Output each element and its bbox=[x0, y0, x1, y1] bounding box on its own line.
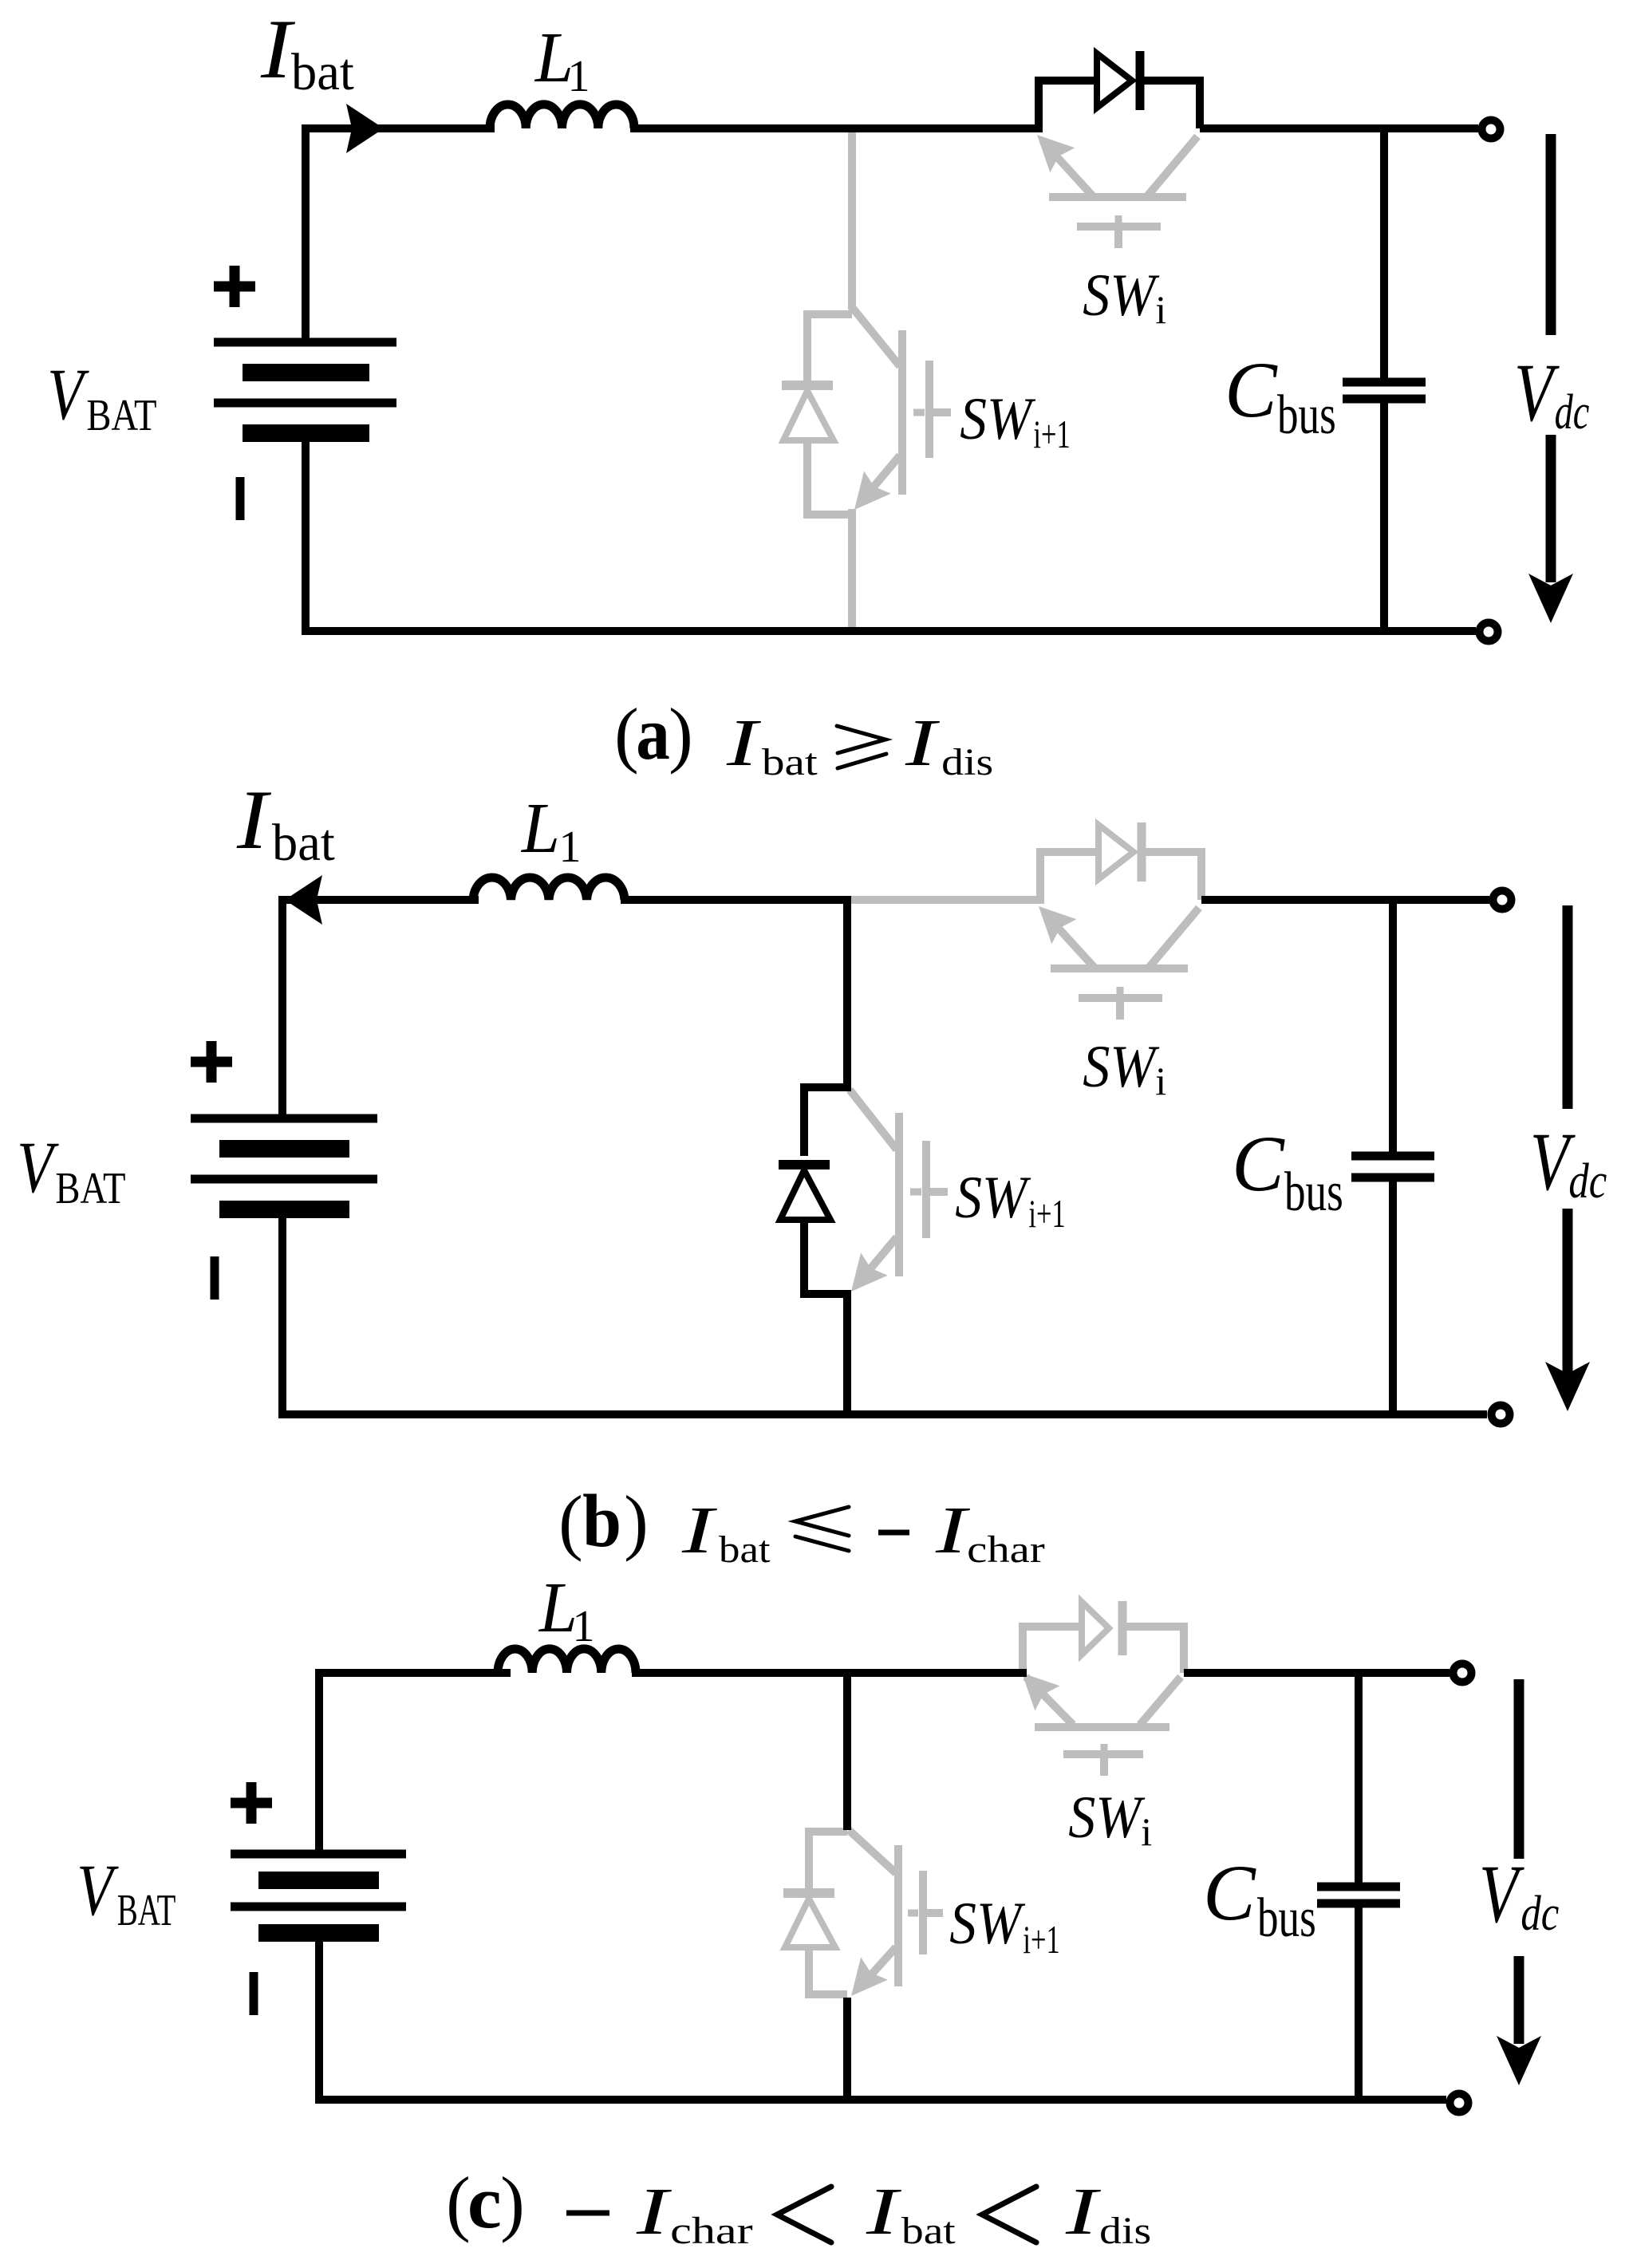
wire: battery negative lead and bottom rail (c) bbox=[319, 1928, 1446, 2100]
free-wheel diode of SWi+1 conducting (b) bbox=[779, 1160, 830, 1169]
svg-text:C: C bbox=[1232, 1119, 1285, 1208]
svg-text:1: 1 bbox=[559, 822, 582, 872]
svg-text:bus: bus bbox=[1284, 1162, 1343, 1223]
switch node line (black, conducting) (b) bbox=[804, 900, 847, 1156]
svg-text:I: I bbox=[236, 773, 272, 866]
capacitor Cbus (b) bbox=[1389, 900, 1397, 1152]
svg-text:c: c bbox=[467, 2161, 502, 2244]
wire: SWi+1 emitter to bottom rail (gray) (a) bbox=[848, 509, 856, 631]
svg-text:SW: SW bbox=[955, 1165, 1031, 1231]
svg-text:I: I bbox=[260, 2, 296, 96]
minus sign (b) bbox=[211, 1256, 219, 1300]
svg-text:i+1: i+1 bbox=[1023, 1917, 1059, 1962]
diode of SWi (gray) (b) bbox=[1098, 825, 1134, 879]
IGBT SWi+1 (gray, off) (a): collector diagonal bbox=[852, 307, 900, 366]
IGBT SWi collector diagonal (b) bbox=[1149, 908, 1199, 968]
svg-text:1: 1 bbox=[573, 1602, 595, 1651]
wire: top rail from SWi to output terminal (b) bbox=[1201, 896, 1489, 904]
symbol less-equal slanted (b) bbox=[795, 1507, 849, 1551]
svg-text:(: ( bbox=[558, 1481, 583, 1562]
svg-text:(: ( bbox=[614, 693, 639, 775]
svg-text:bat: bat bbox=[272, 814, 335, 872]
IGBT SWi+1 gate bar (a) bbox=[925, 361, 933, 458]
capacitor Cbus (a) bbox=[1380, 128, 1388, 378]
IGBT SWi gate bar (c) bbox=[1063, 1750, 1143, 1758]
SWi bypass loop (gray, off) (b) bbox=[1040, 852, 1098, 900]
IGBT SWi collector diagonal (c) bbox=[1140, 1677, 1181, 1725]
inductor L1 (b) bbox=[473, 878, 625, 900]
svg-text:L: L bbox=[520, 789, 560, 868]
wire: battery negative lead and bottom rail (b) bbox=[282, 1205, 1487, 1414]
capacitor Cbus (c) bbox=[1355, 1673, 1363, 1883]
IGBT SWi+1 (gray) (c): collector diagonal bbox=[849, 1830, 896, 1873]
IGBT SWi+1 bar (b) bbox=[895, 1113, 903, 1276]
svg-text:b: b bbox=[582, 1480, 621, 1563]
svg-text:C: C bbox=[1225, 345, 1278, 434]
svg-text:BAT: BAT bbox=[117, 1886, 176, 1935]
wire: battery positive lead and top-left corner (c) bbox=[319, 1673, 511, 1858]
Vdc arrow (c) bbox=[1514, 1679, 1524, 1859]
output terminal top (b) bbox=[1493, 891, 1512, 909]
svg-text:bat: bat bbox=[291, 43, 354, 101]
svg-text:I: I bbox=[636, 2175, 672, 2249]
svg-text:V: V bbox=[1479, 1848, 1524, 1940]
battery VBAT (c) bbox=[231, 1850, 406, 1859]
plus sign (b) bbox=[191, 1057, 232, 1067]
svg-text:I: I bbox=[1065, 2175, 1102, 2249]
free-wheel diode branch of SWi+1 (gray) (c) bbox=[809, 1832, 847, 1888]
svg-text:V: V bbox=[77, 1849, 119, 1931]
Vdc arrow (b) bbox=[1563, 905, 1573, 1109]
svg-text:): ) bbox=[624, 1481, 649, 1562]
current arrow Ibat pointing left (b) bbox=[285, 875, 322, 925]
IGBT SWi (gray) (b): emitter diagonal with arrow bbox=[1044, 913, 1095, 968]
Vdc arrow (a) bbox=[1546, 134, 1556, 335]
IGBT SWi+1 emitter diagonal with arrow (b) bbox=[860, 1237, 897, 1281]
svg-text:i+1: i+1 bbox=[1028, 1191, 1065, 1236]
svg-text:dc: dc bbox=[1555, 385, 1590, 440]
IGBT SWi bar (a) bbox=[1049, 193, 1186, 201]
svg-text:I: I bbox=[866, 2175, 902, 2249]
IGBT SWi gate tick (a) bbox=[1115, 215, 1122, 223]
IGBT SWi (gray, off) (a): emitter diagonal with arrow bbox=[1043, 141, 1093, 196]
battery VBAT (a) bbox=[214, 338, 396, 347]
IGBT SWi+1 (gray) (b): collector diagonal bbox=[850, 1090, 897, 1150]
minus sign (c) bbox=[250, 1972, 258, 2015]
output terminal bottom (a) bbox=[1480, 623, 1498, 641]
IGBT SWi+1 bar (a) bbox=[898, 330, 906, 495]
switch node line (black) (c) bbox=[843, 1673, 851, 1830]
minus sign in caption (c) bbox=[566, 2211, 609, 2216]
IGBT SWi gate bar (b) bbox=[1079, 994, 1162, 1002]
diode of SWi (gray) (c) bbox=[1082, 1602, 1109, 1655]
IGBT SWi bar (b) bbox=[1051, 964, 1188, 972]
output terminal bottom (b) bbox=[1492, 1406, 1510, 1424]
svg-text:C: C bbox=[1203, 1848, 1256, 1937]
symbol less-than (c) bbox=[777, 2187, 831, 2242]
IGBT SWi+1 emitter diagonal with arrow (a) bbox=[863, 456, 900, 499]
svg-text:SW: SW bbox=[949, 1891, 1026, 1957]
svg-text:i: i bbox=[1155, 1059, 1166, 1103]
wire: SWi+1 to bottom rail (black) (c) bbox=[843, 1998, 851, 2100]
svg-text:V: V bbox=[1514, 347, 1560, 439]
svg-text:I: I bbox=[681, 1493, 718, 1568]
svg-text:I: I bbox=[905, 706, 941, 780]
IGBT SWi bar (c) bbox=[1035, 1723, 1169, 1731]
svg-text:SW: SW bbox=[1083, 262, 1160, 329]
gray top rail from node to SWi (b) bbox=[847, 896, 1044, 904]
symbol greater-equal slanted (a) bbox=[837, 726, 886, 768]
IGBT SWi+1 bar (c) bbox=[894, 1845, 902, 1986]
svg-text:i: i bbox=[1141, 1809, 1152, 1854]
symbol less-than second (c) bbox=[982, 2187, 1036, 2242]
IGBT SWi gate lead (a) bbox=[1114, 230, 1122, 248]
svg-text:V: V bbox=[17, 1126, 59, 1208]
IGBT SWi+1 gate lead (c) bbox=[926, 1909, 943, 1917]
minus sign (a) bbox=[236, 477, 245, 520]
svg-text:i+1: i+1 bbox=[1033, 412, 1070, 456]
output terminal top (c) bbox=[1453, 1664, 1472, 1682]
IGBT SWi gate lead (c) bbox=[1100, 1758, 1108, 1776]
wire: top rail from L1 to SWi (c) bbox=[632, 1669, 1027, 1677]
battery VBAT (b) bbox=[191, 1114, 377, 1123]
wire: top rail from SWi to output terminal (a) bbox=[1200, 124, 1478, 132]
IGBT SWi gate tick (b) bbox=[1117, 987, 1124, 995]
inductor L1 (c) bbox=[498, 1649, 636, 1673]
IGBT SWi+1 gate lead (b) bbox=[929, 1188, 948, 1196]
svg-text:a: a bbox=[636, 692, 670, 775]
plus sign (a) bbox=[214, 282, 255, 292]
svg-text:bat: bat bbox=[901, 2210, 956, 2252]
svg-text:char: char bbox=[670, 2210, 753, 2252]
svg-text:SW: SW bbox=[960, 386, 1036, 452]
SWi bypass loop (gray, off) (c) bbox=[1023, 1627, 1082, 1673]
IGBT SWi gate tick (c) bbox=[1101, 1744, 1108, 1751]
svg-text:bus: bus bbox=[1257, 1887, 1316, 1949]
svg-text:dis: dis bbox=[941, 741, 993, 783]
wire: diode to bottom jog (b) bbox=[804, 1220, 847, 1414]
output terminal bottom (c) bbox=[1450, 2094, 1469, 2112]
svg-text:dis: dis bbox=[1099, 2210, 1151, 2252]
svg-text:bat: bat bbox=[762, 741, 818, 783]
plus sign (c) bbox=[231, 1798, 272, 1808]
wire: SWi bypass loop (a) bbox=[1039, 81, 1097, 128]
free-wheel diode branch of SWi+1 (gray) (a) bbox=[807, 314, 852, 381]
svg-text:SW: SW bbox=[1068, 1785, 1146, 1851]
svg-text:BAT: BAT bbox=[55, 1164, 125, 1213]
svg-text:char: char bbox=[967, 1528, 1045, 1571]
svg-text:i: i bbox=[1155, 287, 1166, 332]
svg-text:bat: bat bbox=[719, 1528, 771, 1571]
svg-text:L: L bbox=[538, 1568, 578, 1647]
output terminal top (a) bbox=[1482, 120, 1501, 139]
wire: top rail from SWi to output terminal (c) bbox=[1184, 1669, 1449, 1677]
IGBT SWi gate lead (b) bbox=[1116, 1001, 1124, 1020]
IGBT SWi+1 gate tick (c) bbox=[908, 1910, 918, 1917]
svg-text:SW: SW bbox=[1083, 1034, 1160, 1100]
IGBT SWi gate bar (a) bbox=[1077, 223, 1161, 231]
IGBT SWi+1 gate bar (c) bbox=[919, 1871, 927, 1954]
svg-text:V: V bbox=[47, 353, 89, 435]
IGBT SWi+1 gate tick (a) bbox=[913, 409, 925, 416]
IGBT SWi (gray) (c): emitter diagonal with arrow bbox=[1026, 1677, 1073, 1725]
svg-text:): ) bbox=[500, 2162, 525, 2243]
svg-text:I: I bbox=[726, 706, 762, 780]
svg-text:dc: dc bbox=[1520, 1887, 1559, 1941]
wire: battery positive lead and top-left corner (b) bbox=[282, 900, 479, 1122]
svg-text:BAT: BAT bbox=[86, 391, 156, 440]
inductor L1 (a) bbox=[490, 105, 634, 128]
IGBT SWi+1 emitter diagonal with arrow (c) bbox=[860, 1947, 896, 1987]
diode of SWi conducting (a) bbox=[1097, 53, 1132, 108]
wire: top rail from L1 to SWi (a) bbox=[630, 124, 1043, 132]
svg-text:I: I bbox=[935, 1493, 971, 1568]
minus sign in caption (b) bbox=[878, 1530, 909, 1536]
node line to SWi+1 (gray, off) (a) bbox=[848, 128, 856, 310]
IGBT SWi collector diagonal (a) bbox=[1147, 136, 1197, 196]
current arrow Ibat pointing right (a) bbox=[346, 104, 384, 153]
svg-text:1: 1 bbox=[568, 52, 590, 101]
svg-text:bus: bus bbox=[1277, 385, 1336, 446]
IGBT SWi+1 gate bar (b) bbox=[922, 1141, 930, 1238]
wire: battery positive lead and top-left corner (a) bbox=[306, 128, 495, 346]
IGBT SWi+1 gate lead (a) bbox=[933, 408, 951, 416]
wire: battery negative lead and bottom rail (a) bbox=[306, 429, 1476, 631]
svg-text:dc: dc bbox=[1568, 1154, 1607, 1209]
svg-text:): ) bbox=[669, 693, 693, 775]
wire: top rail from L1 to switch node (b) bbox=[621, 896, 851, 904]
IGBT SWi+1 gate tick (b) bbox=[910, 1189, 921, 1196]
